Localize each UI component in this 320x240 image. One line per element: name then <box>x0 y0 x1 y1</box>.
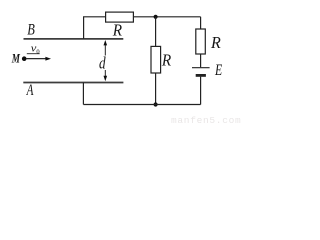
dimension arrowhead down <box>104 76 108 81</box>
svg-text:A: A <box>26 82 34 99</box>
svg-text:R: R <box>210 33 221 52</box>
svg-text:0: 0 <box>36 48 39 55</box>
svg-text:d: d <box>99 54 106 73</box>
svg-text:manfen5.com: manfen5.com <box>171 115 241 126</box>
battery E negative plate <box>196 74 206 77</box>
rod node M dot <box>22 56 27 61</box>
rail B <box>24 38 124 40</box>
wire middle branch upper <box>155 17 157 47</box>
wire bottom <box>83 104 200 106</box>
wire top-right stub <box>133 16 200 18</box>
resistor R2 (middle) <box>151 46 161 73</box>
junction node top <box>154 15 158 19</box>
svg-text:E: E <box>214 62 222 79</box>
wire right branch middle <box>200 54 202 67</box>
svg-text:R: R <box>161 51 172 70</box>
junction node bottom <box>154 102 158 106</box>
velocity arrowhead <box>45 57 51 61</box>
dimension arrow d lower segment <box>104 70 106 78</box>
battery E positive plate <box>192 67 210 69</box>
wire middle branch lower <box>155 73 157 105</box>
wire top-left (from rail B up and right to R1) <box>84 17 106 39</box>
svg-text:M: M <box>11 52 21 66</box>
wire bottom-left (rail A down to bottom wire) <box>82 83 84 105</box>
wire right branch lower <box>200 77 202 105</box>
svg-text:B: B <box>27 22 35 39</box>
rail A <box>23 82 123 84</box>
dimension arrow d upper segment <box>104 44 106 56</box>
svg-text:R: R <box>112 21 123 40</box>
wire right branch upper <box>200 17 202 29</box>
dimension arrowhead up <box>104 40 108 45</box>
v0 underline <box>27 53 40 55</box>
resistor R3 (right) <box>196 29 206 54</box>
velocity arrow v0 shaft <box>27 58 47 60</box>
resistor R1 (top) <box>106 12 134 22</box>
